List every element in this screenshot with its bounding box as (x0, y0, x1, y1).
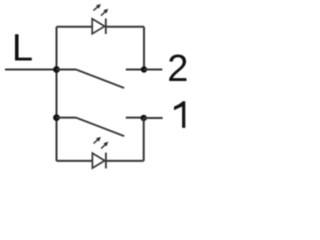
wire bottom loop right (106, 160, 144, 162)
wire top loop down (143, 27, 145, 70)
wire top loop left (57, 26, 93, 28)
switch S1 contact (126, 117, 144, 119)
terminal node 2 (141, 66, 147, 72)
LED D1 triangle (92, 153, 104, 168)
switch S2 contact (126, 69, 144, 71)
junction node switch 1 (53, 114, 60, 121)
switch S1 pole lead (57, 117, 77, 119)
LED D2 cathode bar (105, 18, 107, 34)
wire bottom loop left (57, 160, 93, 162)
LED D1 arrow 1 (94, 137, 101, 144)
wire terminal 2 (144, 69, 162, 71)
terminal label 1 (174, 101, 185, 128)
wire bottom loop down (143, 118, 145, 161)
wire L feed (5, 69, 57, 71)
switch S1 blade (76, 118, 124, 137)
LED D2 arrow 2 (101, 9, 108, 16)
wire top loop right (106, 26, 144, 28)
svg-text:L: L (12, 27, 33, 69)
LED D1 cathode bar (105, 153, 107, 169)
LED D1 arrow 2 (101, 142, 108, 149)
LED D2 triangle (92, 19, 104, 34)
junction node L (53, 66, 60, 73)
wire terminal 1 (144, 117, 163, 119)
LED D2 arrow 1 (93, 4, 101, 11)
svg-text:2: 2 (167, 48, 188, 90)
switch S2 pole lead (57, 69, 77, 71)
switch S2 blade (76, 70, 124, 89)
terminal node 1 (141, 115, 147, 121)
wire vertical bus (56, 27, 58, 161)
